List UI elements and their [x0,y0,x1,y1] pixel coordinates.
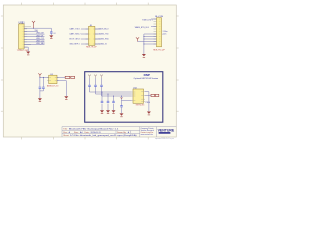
svg-text:GND_REF 4: GND_REF 4 [69,44,79,46]
wire USB net row 5 [24,44,44,46]
logo company subtitle [159,132,171,134]
wire regulator output [57,76,65,78]
title block company column [141,127,155,136]
svg-text:Optional ESP32-S3 Version: Optional ESP32-S3 Version [134,77,159,80]
ground below USB1 [26,52,30,56]
svg-text:UART_TXD 1: UART_TXD 1 [69,28,80,31]
power flag 3V3 regulator input [38,73,41,77]
junction regulator input node [39,77,40,78]
connector J2 body [89,26,95,45]
capacitor C8 decoupling 2 [107,94,110,110]
connector USB1 internal pin numbers [23,26,24,47]
wire J3 pin11 to bus [144,43,157,45]
junction C7 top [102,92,103,93]
regulator U1 pins [47,77,58,80]
svg-text:AMS1117-3.3: AMS1117-3.3 [47,84,58,87]
svg-text:Drawn By:: Drawn By: [117,132,127,134]
wires J2 left nets [81,29,89,44]
svg-text:Bluetooth HID Gamepad Board Re: Bluetooth HID Gamepad Board Rev 1.1 [69,128,120,131]
svg-text:1/1 File: bluetooth_hid_game: 1/1 File: bluetooth_hid_gamepad_rev11.ep… [70,134,137,137]
pin mark P2 box top [94,75,97,79]
svg-text:TXD0: TXD0 [145,102,150,104]
svg-text:C4: C4 [53,33,55,35]
regulator U1 internal pin names [49,77,56,80]
svg-text:UART_RXD 2: UART_RXD 2 [69,33,80,36]
wire to regulator ground [39,91,41,98]
svg-text:VENTURE: VENTURE [158,129,175,133]
ESP module U2 internal pin names [134,92,144,102]
junction J3 bus pin11 [143,44,144,45]
svg-text:Sheet:: Sheet: [63,134,69,137]
wire USB net row 3 [24,38,44,40]
ESP module U2 body [133,89,144,103]
module box ESP outline [85,72,163,123]
title block sheet row [63,134,137,137]
svg-text:7 DBG_TXD: 7 DBG_TXD [99,34,110,36]
sheet background [0,0,180,143]
wire J3 pin8 to bus [144,36,157,38]
svg-text:pitch: pitch [163,33,167,36]
capacitor C4 feed column 1 [88,78,91,92]
wire USB net row 2 [24,36,44,38]
capacitor C3 second input cap [42,77,45,91]
border zone ticks [1,3,179,140]
ferrite bead value tag [71,76,75,78]
junction C8 top [108,94,109,95]
capacitor C9 decoupling 3 [112,96,115,110]
capacitor C2 input cap [39,77,42,91]
capacitor C1 [50,28,53,35]
svg-text:8 3V3_MCU: 8 3V3_MCU [99,29,109,31]
svg-text:6 DBG_RXD: 6 DBG_RXD [99,39,110,41]
svg-text:WAKE_BTN_IN 4: WAKE_BTN_IN 4 [135,26,149,29]
connector J2 pins right [95,29,98,44]
wire USB net row 1 [24,33,44,35]
ground U2 [147,112,151,116]
svg-text:DNP: DNP [144,73,150,77]
title block revision row [63,131,130,134]
wire J3 gnd bus vertical [143,34,145,54]
power flag VBUS [32,21,35,28]
wires J2 right nets [95,29,101,44]
svg-text:ESP32-S3: ESP32-S3 [136,104,144,106]
ground C8 [106,110,110,114]
ground C9 [112,110,116,114]
svg-text:2024-05-11: 2024-05-11 [91,132,102,134]
wire regulator input [40,76,49,78]
connector J3 body [157,18,162,47]
wire U2 txd pin [145,94,151,96]
title block title row [63,128,119,131]
wire J3 pin1 net [151,18,157,20]
connector USB1 body [19,24,25,49]
svg-text:5V0: 5V0 [35,30,38,32]
wire bus row1 [90,91,132,93]
pin mark P3 box top [100,75,103,79]
ground regulator [38,98,42,102]
junction C9 top [113,96,114,97]
ferrite bead FB1 [65,76,70,78]
ground J3 bus [142,54,146,58]
capacitor C10 enable RC [120,96,123,113]
junction C10 top [121,96,122,97]
wire J3 supply to pin10 [138,41,157,43]
capacitor C6 feed column 3 [100,78,103,96]
capacitor C5 feed column 2 [94,78,97,94]
svg-text:USB1: USB1 [19,22,26,24]
wire bus row2 [96,93,132,95]
wire USB net row 4 [24,41,44,43]
connector J3 pins [154,19,157,44]
ground below C1 [49,35,53,38]
junction J3 bus pin9 [143,39,144,40]
junction cap C3 top [43,77,44,78]
wire J3 pin7 to bus [144,33,157,35]
title block frame [62,127,176,137]
power mark enable node [120,97,123,98]
svg-text:Date:: Date: [85,131,90,134]
svg-text:STAT_LED 1: STAT_LED 1 [142,19,152,22]
wire bus row3 [102,95,132,97]
ESP module U2 pins right [144,92,146,102]
wire VBUS from USB1 [24,27,51,29]
svg-text:BL-CON: BL-CON [155,16,163,18]
wire J3 pin9 to bus [144,38,157,40]
svg-text:HDR-TH_12P: HDR-TH_12P [153,49,165,51]
connector J2 pins left [86,29,89,44]
svg-text:Rev:: Rev: [63,132,68,134]
svg-text:Title:: Title: [63,128,68,131]
drawing area [3,5,176,137]
regulator U1 body [49,75,57,83]
wire U2 gnd pin [145,92,149,112]
svg-text:5 GND_IO: 5 GND_IO [99,44,108,46]
connector J3 internal pin numbers [159,19,160,44]
wire J3 pin4 net [151,26,157,28]
power flag J3 supply [136,37,139,41]
svg-text:Size:: Size: [74,132,79,134]
svg-text:www.venture.res: www.venture.res [141,133,154,136]
wire cap commons [40,90,44,92]
svg-text:USB_SBU: USB_SBU [36,43,45,45]
wire USB1 ground pin [24,47,28,51]
connector USB1 pins [24,26,31,47]
wire enable to U2 [122,100,132,102]
wire regulator gnd tab [57,81,66,96]
capacitor C7 decoupling 1 [101,92,104,110]
ground regulator tab [64,96,68,100]
resistor R2 [155,94,158,96]
ground C7 [100,110,104,114]
svg-text:BOOT_SEL 3: BOOT_SEL 3 [69,39,80,41]
ESP module U2 pins left [132,92,134,101]
svg-text:HDR-TH_4P: HDR-TH_4P [86,46,97,48]
junction J3 bus pin8 [143,36,144,37]
wire USB net row 0 [24,31,38,33]
ground C10 [120,113,124,117]
resistor R1 [151,94,155,96]
pin mark P1 box top [88,75,91,79]
connector J2 internal pin numbers [89,29,94,44]
junction VBUS node [33,28,34,29]
